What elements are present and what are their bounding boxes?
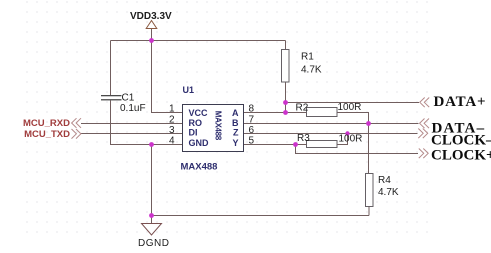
svg-text:3: 3 <box>169 125 175 136</box>
svg-text:4: 4 <box>169 135 175 146</box>
svg-text:100R: 100R <box>338 102 362 113</box>
svg-text:DGND: DGND <box>138 238 169 249</box>
svg-text:RO: RO <box>189 118 203 128</box>
svg-text:8: 8 <box>249 103 255 114</box>
svg-text:2: 2 <box>169 114 175 125</box>
svg-text:Z: Z <box>233 128 239 138</box>
svg-text:DI: DI <box>189 128 198 138</box>
svg-text:4.7K: 4.7K <box>301 65 322 76</box>
svg-text:R2: R2 <box>296 102 309 113</box>
svg-text:MCU_RXD: MCU_RXD <box>23 118 70 129</box>
svg-text:1: 1 <box>169 103 175 114</box>
svg-text:4.7K: 4.7K <box>378 187 399 198</box>
svg-text:VCC: VCC <box>189 108 209 118</box>
svg-text:R4: R4 <box>378 175 391 186</box>
svg-text:7: 7 <box>249 114 255 125</box>
svg-text:0.1uF: 0.1uF <box>120 103 146 114</box>
svg-text:MCU_TXD: MCU_TXD <box>24 129 70 140</box>
svg-text:B: B <box>232 118 239 128</box>
svg-text:R1: R1 <box>301 52 314 63</box>
svg-text:100R: 100R <box>339 134 363 145</box>
svg-text:R3: R3 <box>297 133 310 144</box>
svg-text:CLOCK+: CLOCK+ <box>431 148 491 164</box>
svg-text:MAX488: MAX488 <box>214 111 223 141</box>
svg-text:6: 6 <box>249 125 255 136</box>
svg-text:DATA+: DATA+ <box>434 94 487 110</box>
svg-text:MAX488: MAX488 <box>181 162 218 173</box>
svg-text:U1: U1 <box>183 85 195 95</box>
svg-text:GND: GND <box>189 138 210 148</box>
svg-text:5: 5 <box>249 135 255 146</box>
svg-text:VDD3.3V: VDD3.3V <box>130 11 172 22</box>
svg-text:A: A <box>232 108 239 118</box>
svg-text:CLOCK–: CLOCK– <box>431 132 491 148</box>
svg-text:Y: Y <box>232 138 238 148</box>
